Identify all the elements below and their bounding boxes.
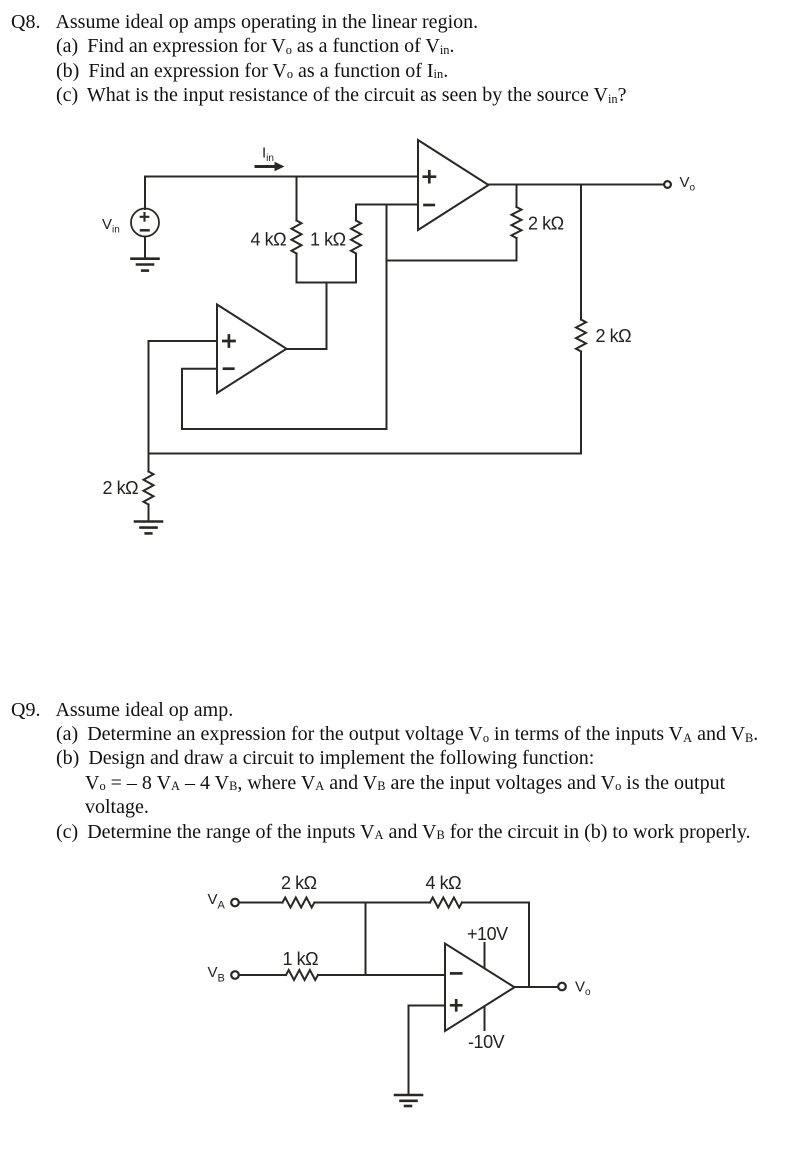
svg-text:2 kΩ: 2 kΩ — [596, 326, 632, 346]
svg-text:Vo: Vo — [680, 174, 696, 194]
svg-text:Vin: Vin — [102, 216, 120, 236]
svg-text:2 kΩ: 2 kΩ — [281, 873, 317, 893]
svg-text:VB: VB — [208, 964, 225, 985]
svg-text:-10V: -10V — [468, 1032, 505, 1052]
svg-text:Iin: Iin — [262, 145, 274, 165]
svg-text:+10V: +10V — [467, 924, 508, 944]
svg-text:1 kΩ: 1 kΩ — [310, 230, 346, 250]
svg-text:VA: VA — [208, 891, 226, 912]
svg-text:2 kΩ: 2 kΩ — [103, 478, 139, 498]
svg-text:Vo: Vo — [575, 979, 591, 999]
svg-text:4 kΩ: 4 kΩ — [251, 230, 287, 250]
svg-text:4 kΩ: 4 kΩ — [426, 873, 462, 893]
svg-text:2 kΩ: 2 kΩ — [528, 214, 564, 234]
svg-text:1 kΩ: 1 kΩ — [283, 949, 319, 969]
